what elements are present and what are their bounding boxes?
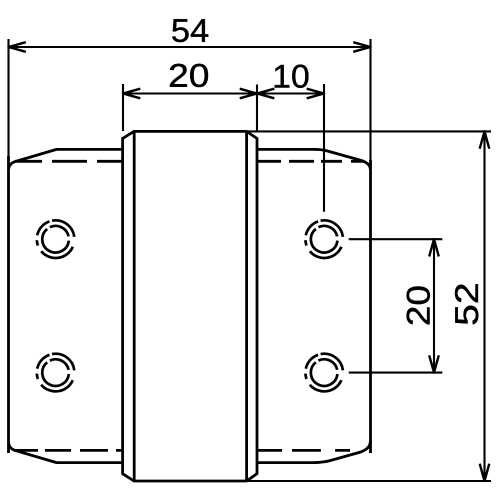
label 10 [275, 65, 309, 88]
hole bottom-left (broken-ring screw hole) [37, 354, 75, 392]
left leaf left edge + extension line of dim 54 [7, 39, 9, 158]
left leaf hidden bend line top (dashed) [15, 160, 123, 163]
barrel right silhouette line [245, 131, 248, 481]
right leaf bottom edge [257, 461, 316, 464]
leader line from top-right hole [349, 238, 443, 240]
left leaf hidden bend line bottom (dashed) [14, 449, 123, 452]
arrowhead 20 left [123, 89, 140, 99]
arrowhead 20 right [240, 89, 257, 99]
label 20 vertical (rotated) [407, 287, 430, 325]
extension line at x=324 down to hole [323, 84, 325, 212]
arrowhead 20v top [429, 239, 439, 256]
extension line at x=123 [122, 84, 124, 131]
hole bottom-right (broken-ring screw hole) [305, 354, 343, 392]
arrowhead 52 top [480, 131, 490, 148]
left leaf bottom chamfer edge [9, 443, 57, 463]
arrowhead 54 right [353, 42, 370, 52]
extension line bottom for dim 52 [247, 480, 491, 482]
right leaf top edge [257, 148, 316, 151]
hole top-left (broken-ring screw hole) [37, 220, 75, 258]
left leaf top chamfer edge [9, 149, 57, 169]
arrowhead 10 right [307, 89, 324, 99]
right leaf hidden bend line top (dashed) [257, 160, 363, 163]
dimension line 20/10 [123, 92, 324, 94]
arrowhead 10 left [257, 89, 274, 99]
label 20 (horizontal) [170, 64, 208, 87]
right leaf bottom chamfer edge [314, 441, 370, 463]
left leaf top edge [56, 148, 123, 151]
right leaf hidden bend line bottom (dashed) [257, 449, 350, 452]
right leaf top chamfer edge [315, 149, 370, 170]
dimension line 52 [483, 131, 485, 481]
leader line from bottom-right hole [349, 372, 443, 374]
arrowhead 54 left [9, 42, 26, 52]
hole top-right (broken-ring screw hole) [305, 220, 343, 258]
dimension line 54 [9, 46, 371, 48]
left leaf bottom edge [56, 461, 123, 464]
label 52 (rotated) [455, 284, 478, 324]
label 54 [172, 19, 208, 42]
dimension line 20 vertical [433, 239, 435, 372]
right leaf right edge + extension line of dim 54 [369, 39, 371, 162]
extension line top for dim 52 [247, 130, 491, 132]
arrowhead 20v bottom [429, 355, 439, 372]
spring barrel outline [123, 131, 257, 481]
arrowhead 52 bottom [480, 464, 490, 481]
extension line at x=257 [256, 85, 258, 132]
barrel left silhouette line [133, 131, 136, 481]
